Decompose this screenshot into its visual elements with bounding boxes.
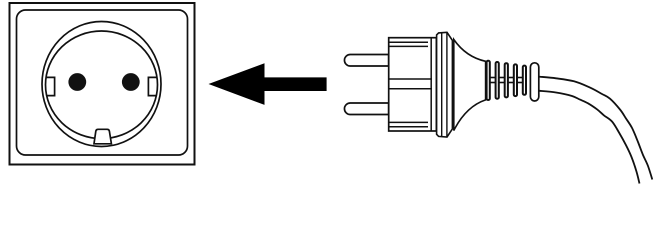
plug body top inner line 1 [389,41,428,43]
socket faceplate outer square [10,3,195,165]
strain-relief neck 4 bottom line [515,82,524,84]
plug body shoulder line [430,38,432,131]
plug pin 2 [344,103,388,115]
plug body bottom inner line 2 [389,126,428,128]
strain-relief end cap [530,63,538,101]
plug bell [454,40,486,131]
plug body mid line 1 [389,78,432,80]
strain-relief rib 4 [514,64,517,96]
cable upper edge [539,77,653,180]
arrow pointing left [209,63,327,105]
strain-relief neck 2 top line [497,77,506,79]
strain-relief neck 2 bottom line [497,82,506,84]
strain-relief rib 3 [505,63,508,97]
earth-clip pocket left [46,77,55,95]
plug body mid line 2 [389,88,432,90]
socket recess inner ring [46,31,158,139]
plug collar [437,32,453,137]
strain-relief rib 2 [496,62,499,99]
plug body bottom inner line 1 [389,121,428,123]
cable lower edge [539,91,640,184]
contact hole left [68,73,86,91]
contact hole right [122,73,140,91]
strain-relief neck 3 top line [506,77,515,79]
plug collar inner line 1 [441,33,443,137]
strain-relief neck 4 top line [515,77,524,79]
strain-relief neck 1 top line [488,77,497,79]
strain-relief rib 5 [523,66,526,95]
strain-relief neck 1 bottom line [488,82,497,84]
earth-clip pocket right [148,77,157,95]
plug collar inner line 2 [446,32,448,137]
plug body top inner line 2 [389,45,428,47]
plug body [389,38,437,131]
socket recess outer ring [42,22,161,147]
socket faceplate inner rounded square [17,10,188,155]
earth-clip tab bottom [94,129,111,144]
strain-relief rib 1 [487,61,490,100]
strain-relief neck 3 bottom line [506,82,515,84]
plug pin 1 [344,55,388,67]
